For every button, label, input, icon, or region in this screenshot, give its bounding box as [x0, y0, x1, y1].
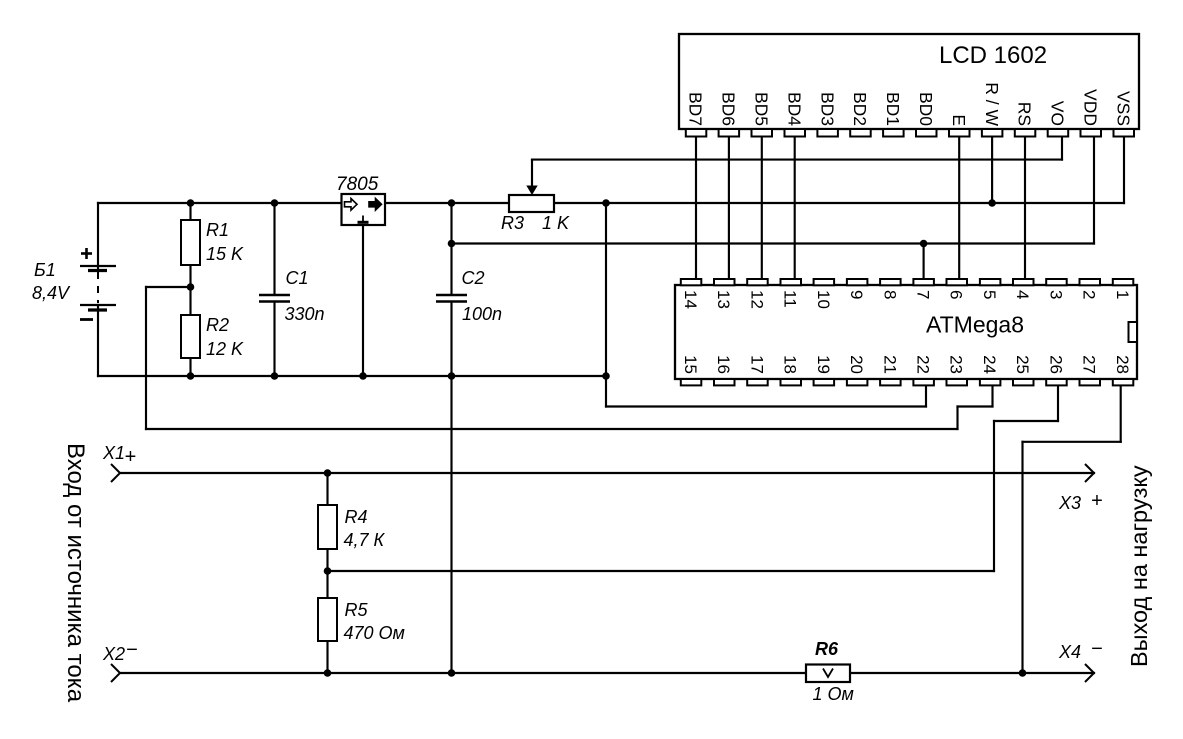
wire LCD BD5 to ATmega pin 12	[761, 137, 763, 280]
battery B1 dashed middle link	[97, 272, 99, 303]
svg-text:4: 4	[1013, 290, 1032, 299]
ATmega pin 9 box	[847, 279, 868, 285]
connector X2 chevron	[111, 664, 120, 682]
svg-text:X1: X1	[102, 443, 125, 463]
svg-text:R / W: R / W	[982, 82, 1002, 126]
junction R1 top on +8.4V rail	[187, 199, 195, 207]
wire battery positive lead	[97, 203, 99, 270]
junction R4 top on X1 line	[324, 469, 332, 477]
wire C2 top lead	[450, 203, 452, 294]
wire divider ADC leg down	[145, 287, 147, 429]
svg-text:VO: VO	[1048, 101, 1068, 126]
svg-text:E: E	[949, 114, 969, 126]
svg-text:R4: R4	[345, 507, 368, 527]
junction line3 start on C2 lead	[448, 240, 456, 248]
battery B1 minus sign	[80, 318, 93, 321]
LCD pin VDD box	[1081, 129, 1102, 137]
svg-text:25: 25	[1013, 355, 1032, 374]
svg-text:17: 17	[747, 355, 766, 374]
wire divider node to ADC: left leg from R1/R2 junction	[146, 286, 191, 288]
ATmega pin 25 box	[1013, 379, 1034, 385]
svg-text:BD4: BD4	[784, 92, 804, 126]
connector X1 chevron	[111, 464, 120, 482]
7805 output solid arrow	[369, 199, 382, 211]
battery B1 cell 2 long plate	[80, 304, 116, 306]
wire GND corner to ATmega pin 22	[606, 405, 926, 407]
wire LCD R/W lead down to rail junction	[991, 137, 993, 204]
svg-text:6: 6	[947, 290, 966, 299]
ATmega pin 3 box	[1046, 279, 1067, 285]
wire pin 26 horizontal to sense riser	[994, 420, 1058, 422]
7805 ground symbol	[358, 216, 369, 223]
LCD pin R / W box	[982, 129, 1003, 137]
wire X1 plus line to X3 output arrow	[120, 472, 1094, 474]
wire X2 minus line right of R6 to X4 arrow	[850, 672, 1094, 674]
junction ATmega pin 7 on line3	[920, 240, 928, 248]
svg-text:24: 24	[980, 355, 999, 374]
svg-text:Вход от источника тока: Вход от источника тока	[62, 443, 89, 703]
junction C1 top on +8.4V rail	[271, 199, 279, 207]
wire battery negative lead	[97, 305, 99, 376]
svg-text:1 Ом: 1 Ом	[813, 684, 854, 704]
microcontroller U2 ATMega8 body	[675, 285, 1137, 379]
svg-text:100n: 100n	[462, 304, 502, 324]
resistor R2 body	[181, 315, 200, 358]
svg-text:X4: X4	[1058, 642, 1081, 662]
ATmega pin 21 box	[880, 379, 901, 385]
wire pin 24 step horizontal	[958, 405, 993, 407]
wire R1 bottom to R2 top through divider node	[189, 264, 191, 316]
ATmega pin 17 box	[747, 379, 768, 385]
ATmega pin 16 box	[714, 379, 735, 385]
wire ATmega pin 7 VCC lead up to line3	[923, 244, 925, 280]
wire C1 top lead	[273, 203, 275, 294]
connector X4 output arrowhead	[1085, 664, 1094, 682]
battery B1 plus sign	[81, 248, 92, 259]
battery B1 cell 2 short plate	[88, 308, 107, 311]
ATmega pin 6 box	[947, 279, 968, 285]
wire divider ADC line to ATmega pin 24 step	[146, 428, 958, 430]
wire R4 bottom to R5 top through junction	[326, 548, 328, 599]
wire LCD E to ATmega pin 6	[958, 137, 960, 280]
junction R2 bottom on GND rail	[187, 372, 195, 380]
svg-text:10: 10	[814, 290, 833, 309]
svg-text:28: 28	[1113, 355, 1132, 374]
svg-text:X2: X2	[102, 644, 125, 664]
svg-text:Б1: Б1	[34, 260, 56, 280]
connector X3 output arrowhead	[1085, 464, 1094, 482]
junction C1 bottom on GND rail	[271, 372, 279, 380]
svg-text:LCD 1602: LCD 1602	[939, 42, 1047, 69]
junction C2 top on +5V rail	[448, 199, 456, 207]
ATmega pin 8 box	[880, 279, 901, 285]
ATmega pin 26 box	[1046, 379, 1067, 385]
ATmega pin 1 box	[1113, 279, 1134, 285]
svg-text:C1: C1	[286, 268, 309, 288]
wire LCD VDD lead down to line3	[1093, 137, 1095, 244]
svg-text:18: 18	[781, 355, 800, 374]
junction R1/R2 divider node	[187, 283, 195, 291]
LCD pin BD7 box	[686, 129, 707, 137]
LCD 1602 module body	[679, 34, 1139, 129]
LCD pin BD2 box	[850, 129, 871, 137]
svg-text:12: 12	[747, 290, 766, 309]
LCD pin RS box	[1015, 129, 1036, 137]
svg-text:9: 9	[847, 290, 866, 299]
svg-text:−: −	[1091, 638, 1103, 660]
ATmega pin 11 box	[781, 279, 802, 285]
svg-text:R2: R2	[206, 315, 229, 335]
wire LCD BD4 to ATmega pin 11	[794, 137, 796, 280]
svg-text:R6: R6	[815, 639, 839, 659]
ATmega pin 7 box	[913, 279, 934, 285]
svg-text:19: 19	[814, 355, 833, 374]
wire +8.4V top rail from battery to 7805 input and through R3 to LCD VSS corner	[98, 202, 1124, 204]
svg-text:5: 5	[980, 290, 999, 299]
battery B1 cell 1 long plate	[80, 265, 116, 267]
LCD pin BD0 box	[916, 129, 937, 137]
wire +5V branch at node 606 down to GND corner	[605, 203, 607, 407]
capacitor C2 top plate	[436, 294, 467, 296]
LCD pin BD6 box	[719, 129, 740, 137]
ATmega pin 2 box	[1080, 279, 1101, 285]
svg-text:4,7 К: 4,7 К	[344, 530, 386, 550]
voltage regulator U1 7805 body	[342, 194, 386, 225]
wire R1 top lead	[189, 203, 191, 221]
svg-text:20: 20	[847, 355, 866, 374]
ATmega pin 27 box	[1080, 379, 1101, 385]
svg-text:R1: R1	[206, 220, 229, 240]
svg-text:BD3: BD3	[817, 92, 837, 126]
ATmega pin 18 box	[781, 379, 802, 385]
battery B1 cell 1 short plate	[88, 269, 107, 272]
svg-text:26: 26	[1046, 355, 1065, 374]
svg-text:VDD: VDD	[1081, 89, 1101, 126]
svg-text:14: 14	[681, 290, 700, 309]
ATmega pin 15 box	[681, 379, 702, 385]
wire LCD RS to ATmega pin 4	[1024, 137, 1026, 280]
wire LCD VO lead	[1061, 137, 1063, 160]
svg-text:Выход на нагрузку: Выход на нагрузку	[1126, 465, 1152, 667]
resistor R4 body	[318, 505, 337, 549]
svg-text:11: 11	[781, 290, 800, 308]
7805 input hollow arrow	[345, 199, 358, 211]
ATmega pin 20 box	[847, 379, 868, 385]
svg-text:7805: 7805	[336, 174, 379, 195]
svg-text:3: 3	[1046, 290, 1065, 299]
svg-text:7: 7	[914, 290, 933, 299]
ATmega pin 14 box	[681, 279, 702, 285]
ATmega pin 23 box	[947, 379, 968, 385]
LCD pin BD4 box	[785, 129, 806, 137]
wire VO contrast line from R3 wiper to LCD VO	[532, 159, 1062, 161]
wire ATmega pin 26 lead	[1057, 385, 1059, 421]
wire pin 28 horizontal	[1023, 441, 1121, 443]
capacitor C1 top plate	[259, 294, 290, 296]
svg-text:BD6: BD6	[719, 92, 739, 126]
svg-text:22: 22	[914, 355, 933, 374]
wire LCD BD7 to ATmega pin 14	[695, 137, 697, 280]
wire LCD BD6 to ATmega pin 13	[728, 137, 730, 280]
LCD pin BD1 box	[883, 129, 904, 137]
wire R2 bottom lead	[189, 357, 191, 376]
ATmega pin 24 box	[980, 379, 1001, 385]
svg-text:1 K: 1 K	[542, 213, 570, 233]
svg-text:BD2: BD2	[850, 92, 870, 126]
junction R5 bottom on X2 line	[324, 669, 332, 677]
svg-text:13: 13	[714, 290, 733, 309]
svg-text:21: 21	[880, 355, 899, 374]
wire GND bottom rail	[98, 375, 606, 377]
svg-text:16: 16	[714, 355, 733, 374]
wire ATmega pin 22 lead	[925, 385, 927, 406]
LCD pin BD5 box	[752, 129, 773, 137]
svg-text:BD1: BD1	[883, 92, 903, 126]
resistor R1 body	[181, 220, 200, 265]
wire LCD VSS lead down to top rail corner	[1123, 137, 1125, 204]
svg-text:R5: R5	[345, 600, 369, 620]
svg-text:ATMega8: ATMega8	[926, 312, 1024, 338]
svg-text:1: 1	[1113, 290, 1132, 299]
svg-text:8,4V: 8,4V	[32, 283, 71, 303]
svg-text:RS: RS	[1015, 102, 1035, 126]
ATmega pin 5 box	[980, 279, 1001, 285]
svg-text:15 K: 15 K	[206, 244, 244, 264]
svg-text:330n: 330n	[285, 304, 325, 324]
capacitor C1 bottom plate	[259, 300, 290, 302]
svg-text:−: −	[126, 639, 138, 661]
ATmega pin 19 box	[814, 379, 835, 385]
svg-text:C2: C2	[462, 268, 485, 288]
svg-text:470 Ом: 470 Ом	[344, 623, 405, 643]
wire R5 bottom lead	[326, 640, 328, 673]
svg-text:BD7: BD7	[686, 92, 706, 126]
svg-text:BD5: BD5	[752, 92, 772, 126]
junction R/W on top rail	[988, 199, 996, 207]
svg-text:23: 23	[947, 355, 966, 374]
svg-text:X3: X3	[1058, 493, 1081, 513]
svg-text:27: 27	[1080, 355, 1099, 374]
resistor R5 body	[318, 598, 337, 641]
svg-text:12 K: 12 K	[206, 339, 244, 359]
junction GND rail corner node	[602, 372, 610, 380]
junction R4/R5 divider node	[324, 567, 332, 575]
wire sense riser from R4/R5 junction line	[993, 421, 995, 571]
wire X2 minus line left of R6	[120, 672, 807, 674]
wire C2 bottom lead continuing down to X2 minus line	[450, 302, 452, 673]
capacitor C2 bottom plate	[436, 300, 467, 302]
wire pin 24 step riser	[956, 407, 958, 430]
wire R4/R5 junction line	[328, 570, 995, 572]
ATmega pin 28 box	[1113, 379, 1134, 385]
junction X4 node	[1019, 669, 1027, 677]
wire R4 top lead	[326, 473, 328, 506]
wire +5V line3 from C2 node to VDD corner	[452, 242, 1095, 244]
ATmega pin 12 box	[747, 279, 768, 285]
svg-text:+: +	[1091, 490, 1103, 512]
LCD pin VO box	[1048, 129, 1069, 137]
potentiometer R3 wiper arrowhead	[526, 186, 537, 196]
ATmega pin 13 box	[714, 279, 735, 285]
junction node 606 on +5V rail	[602, 199, 610, 207]
ATmega pin 22 box	[913, 379, 934, 385]
LCD pin BD3 box	[817, 129, 838, 137]
svg-text:8: 8	[880, 290, 899, 299]
junction C2 ground leg on X2 line	[448, 669, 456, 677]
svg-text:BD0: BD0	[916, 92, 936, 126]
potentiometer R3 body	[509, 195, 554, 212]
wire 7805 ground pin to bottom rail	[362, 225, 364, 376]
svg-text:2: 2	[1080, 290, 1099, 299]
wire ATmega pin 24 lead	[991, 385, 993, 406]
resistor R6 body	[806, 665, 850, 683]
wire R3 wiper riser	[531, 160, 533, 187]
junction 7805 GND on GND rail	[359, 372, 367, 380]
svg-text:R3: R3	[501, 213, 524, 233]
junction C2 bottom on GND rail	[448, 372, 456, 380]
wire C1 bottom lead	[273, 302, 275, 376]
svg-text:+: +	[125, 446, 137, 468]
wire ATmega pin 28 lead	[1120, 385, 1122, 441]
ATMega8 notch mark on right edge	[1129, 322, 1138, 342]
svg-text:VSS: VSS	[1113, 91, 1133, 126]
svg-text:15: 15	[681, 355, 700, 374]
LCD pin VSS box	[1114, 129, 1135, 137]
wire pin 28 riser down to X4 node	[1021, 442, 1023, 673]
ATmega pin 10 box	[814, 279, 835, 285]
ATmega pin 4 box	[1013, 279, 1034, 285]
resistor R6 power marking V	[823, 669, 833, 678]
LCD pin E box	[949, 129, 970, 137]
